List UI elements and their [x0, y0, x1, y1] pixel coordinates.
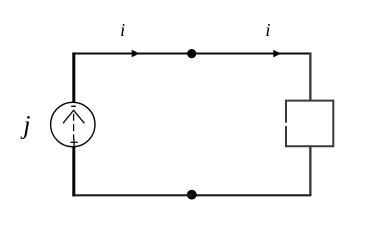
current arrow i (left): [132, 50, 140, 58]
svg-text:i: i: [120, 20, 125, 40]
wire: right vertical upper (top wire to load): [309, 52, 311, 100]
wire: top-right segment (node A to load): [192, 53, 311, 55]
current source J: [51, 102, 95, 146]
svg-text:i: i: [265, 20, 270, 40]
wire: right vertical lower (load to bottom wire): [309, 146, 311, 196]
wire: bottom-right segment (load to node B): [192, 194, 311, 196]
current source circle: [51, 102, 95, 146]
current source minus mark: [71, 105, 76, 107]
wire: left vertical lower (current source to bottom wire): [72, 146, 75, 196]
current source arrowhead chevron: [63, 110, 84, 123]
node A (top junction dot): [187, 49, 196, 58]
wire: left vertical upper (top wire to current source): [72, 52, 75, 103]
wire: top-left segment (current source to node A): [72, 53, 192, 55]
load box (two-terminal element): [286, 101, 333, 147]
node B (bottom junction dot): [187, 190, 197, 200]
svg-text:j: j: [20, 110, 30, 139]
wire: bottom-left segment (node B to current source): [72, 194, 192, 196]
current source dashed shaft: [73, 114, 75, 140]
current source plus mark: [70, 141, 77, 143]
current arrow i (right): [273, 50, 281, 58]
